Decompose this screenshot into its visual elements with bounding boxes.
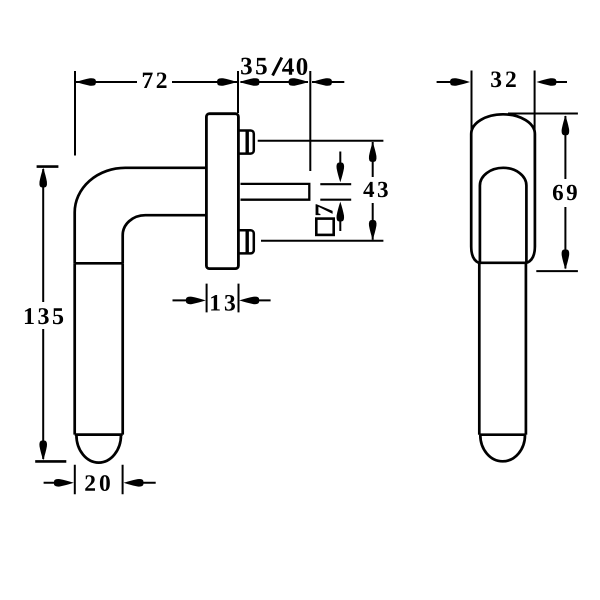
arrow 43 top bbox=[369, 142, 377, 162]
label 35/40 slash bbox=[273, 58, 282, 76]
dim 7: extension lines of spindle bbox=[320, 184, 351, 200]
dim 20: extension lines bbox=[75, 465, 123, 495]
dim 135: end ticks bbox=[35, 167, 66, 462]
arrow 7 bottom (outside, pointing up) bbox=[337, 202, 345, 222]
arrow 69 top bbox=[562, 115, 570, 135]
arrow 135 bottom bbox=[39, 440, 47, 460]
dim 43: dimension line bbox=[372, 142, 374, 240]
arrow 13 left (outside) bbox=[186, 297, 206, 305]
label 72 bbox=[143, 72, 167, 88]
arrow 35/40 extra outside right bbox=[312, 78, 332, 86]
arrow 72 left bbox=[76, 78, 96, 86]
label 40 bbox=[282, 58, 307, 75]
arrow 7 top (outside, pointing down) bbox=[337, 162, 345, 182]
front view: grip below joint bbox=[479, 263, 526, 435]
arrow 32 left (outside) bbox=[450, 78, 470, 86]
dim 13: extension lines bbox=[207, 284, 239, 313]
label 43 bbox=[363, 182, 387, 197]
dim 32: arrow tail lines bbox=[437, 81, 567, 83]
dim 43: leader lines from screws bbox=[258, 141, 384, 241]
dim 7: arrow stems bbox=[339, 152, 341, 232]
rosette plate (side view) bbox=[206, 114, 238, 269]
front view: joint line under head bbox=[479, 261, 527, 264]
arrow 35/40 left bbox=[240, 78, 260, 86]
dim 35/40: right extension line bbox=[309, 71, 311, 171]
dim 72: extension line left bbox=[74, 71, 76, 156]
arrow 43 bottom bbox=[369, 220, 377, 240]
arrow 135 top bbox=[39, 168, 47, 188]
grip end cap (side view) bbox=[76, 435, 121, 463]
dim 69: dimension line bbox=[564, 116, 566, 269]
label 20 bbox=[85, 475, 110, 491]
dim 69: extension lines bbox=[508, 114, 578, 272]
joint line between bend piece and grip (side view) bbox=[75, 262, 123, 265]
arrow 20 right (outside) bbox=[124, 479, 144, 487]
arrow 72 right bbox=[217, 78, 237, 86]
arrow 13 right (outside) bbox=[239, 297, 259, 305]
front view: grip end cap bbox=[480, 435, 525, 461]
label 135 bbox=[25, 308, 63, 324]
arrow 69 bottom bbox=[562, 250, 570, 270]
handle neck (side view, bend piece outline) bbox=[75, 168, 206, 263]
label 69 bbox=[553, 185, 577, 200]
label 13 bbox=[211, 295, 235, 311]
dim 35/40: dimension line bbox=[241, 81, 345, 83]
screw bottom bbox=[240, 230, 254, 253]
dim 7: square symbol bbox=[316, 219, 333, 235]
label 32 bbox=[491, 71, 516, 87]
arrow 35/40 right bbox=[289, 78, 309, 86]
label 35 bbox=[241, 58, 267, 75]
dim 72: dimension line bbox=[76, 81, 237, 83]
dim 35/40: left extension line bbox=[237, 71, 239, 113]
spindle (square shaft, side view) bbox=[241, 184, 310, 200]
arrow 20 left (outside) bbox=[54, 479, 74, 487]
dim 13: arrow tail lines bbox=[173, 299, 271, 301]
dim 135: dimension line bbox=[42, 169, 44, 459]
front view: handle head outer outline bbox=[471, 114, 535, 263]
arrow 32 right (outside) bbox=[537, 78, 557, 86]
dim 32: extension lines bbox=[472, 71, 535, 171]
front view: inner grip capsule over head bbox=[480, 168, 527, 263]
screw top bbox=[240, 131, 254, 154]
dim 20: arrow tail lines bbox=[44, 482, 156, 484]
label 7 (rotated) bbox=[316, 204, 333, 215]
grip (side view, vertical part) bbox=[75, 263, 123, 434]
